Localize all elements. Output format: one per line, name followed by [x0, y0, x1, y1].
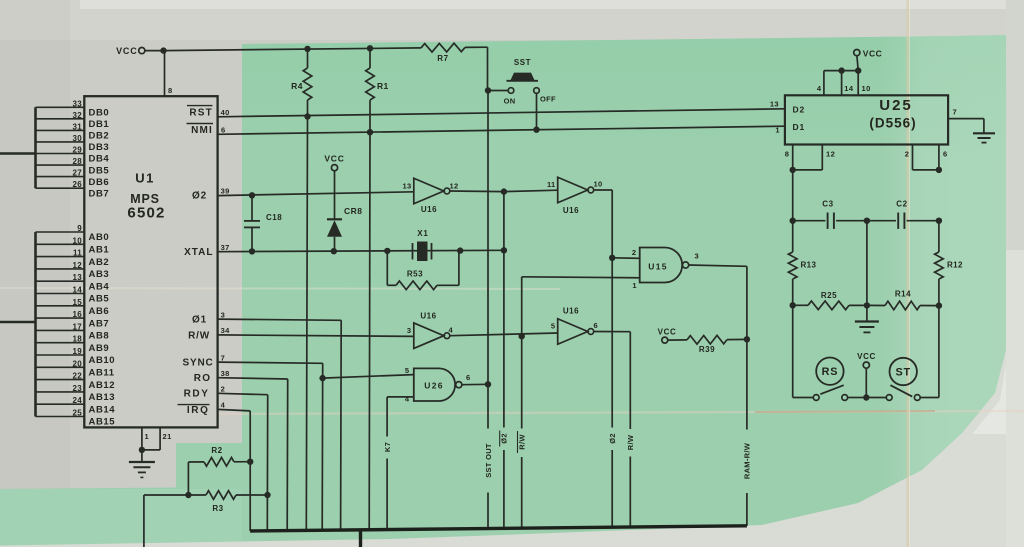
- wire VCC rail right segment: [465, 46, 488, 48]
- wire SST OUT vertical: [484, 91, 493, 529]
- svg-text:C18: C18: [266, 213, 282, 222]
- svg-text:D2: D2: [793, 105, 805, 115]
- svg-text:AB7: AB7: [89, 318, 110, 329]
- ground (U25 pin7): [973, 133, 995, 142]
- svg-text:Ø1: Ø1: [192, 314, 207, 325]
- wire DB0-DB7 pin lines: [36, 107, 85, 188]
- wire RO row (U1 pin38): [218, 378, 288, 531]
- junction XTAL/Ø2bar: [501, 247, 507, 253]
- svg-text:AB4: AB4: [89, 281, 110, 292]
- svg-text:AB12: AB12: [89, 380, 116, 391]
- svg-text:6: 6: [594, 321, 599, 330]
- wire RST net down to bus: [306, 117, 307, 531]
- wire U26 pin4 / K7: [383, 397, 414, 530]
- bus AB vertical bar: [34, 232, 37, 417]
- svg-text:VCC: VCC: [116, 46, 137, 56]
- svg-text:D1: D1: [793, 122, 805, 132]
- wire U25 pins 2/6 tie: [905, 145, 948, 174]
- svg-text:U16: U16: [420, 312, 436, 321]
- junction Ø2/U15 pin2: [609, 255, 615, 261]
- svg-text:Ø2: Ø2: [608, 433, 617, 444]
- svg-text:RO: RO: [194, 373, 212, 384]
- svg-text:AB9: AB9: [89, 343, 110, 354]
- junction XTAL/CR8: [331, 248, 337, 254]
- svg-text:13: 13: [770, 99, 779, 108]
- wire inv12 out to junction: [450, 190, 504, 193]
- svg-text:6502: 6502: [127, 205, 165, 222]
- wire right node down to ST: [920, 306, 939, 398]
- capacitor C3: [793, 200, 867, 229]
- wire U25 top pins to VCC: [817, 67, 871, 95]
- wire Ø2 row (U1 pin39 to U16 in13): [218, 192, 414, 196]
- contact OFF: [534, 88, 556, 104]
- wire U1 pin 8 from VCC: [165, 51, 173, 97]
- svg-text:X1: X1: [417, 229, 428, 238]
- svg-text:R/W: R/W: [626, 434, 635, 450]
- ground (U1): [129, 450, 155, 478]
- nand U26: [405, 366, 471, 404]
- node VCC (switch center): [857, 352, 876, 401]
- svg-text:Ø2: Ø2: [500, 433, 509, 444]
- wire U25 pin7 to ground: [948, 108, 984, 134]
- IC U1 MPS 6502 body: [84, 96, 217, 427]
- svg-text:10: 10: [594, 180, 603, 189]
- svg-text:R2: R2: [211, 446, 222, 455]
- bus drop thick wire: [359, 530, 362, 547]
- wire R/W vertical to bus: [626, 434, 635, 527]
- wire RAM-R/W vertical: [743, 339, 752, 526]
- svg-text:DB1: DB1: [89, 119, 110, 130]
- wire R/W row (U1 pin34): [218, 335, 414, 337]
- junction SST-OUT tee: [485, 87, 491, 93]
- wire VCC node to ST: [869, 397, 886, 399]
- resistor R39: [668, 335, 747, 354]
- wire Ø2bar vertical: [500, 192, 509, 529]
- svg-text:22: 22: [73, 372, 83, 381]
- svg-text:R53: R53: [407, 270, 423, 279]
- svg-text:12: 12: [826, 149, 835, 158]
- capacitor C18: [244, 195, 282, 251]
- svg-text:6: 6: [943, 149, 948, 158]
- svg-text:1: 1: [775, 126, 780, 135]
- svg-text:21: 21: [163, 432, 172, 441]
- wire U15 pin1 from R/Wbar: [522, 277, 640, 336]
- svg-text:AB0: AB0: [89, 232, 110, 243]
- wire NMI net down to bus: [368, 132, 371, 530]
- resistor R3: [188, 491, 267, 513]
- svg-text:1: 1: [145, 432, 150, 441]
- inverter U16 pins 5-6: [551, 307, 598, 345]
- node VCC (top-left): [116, 46, 145, 56]
- svg-text:27: 27: [73, 169, 83, 178]
- wire NMI row (U1 pin6 to U25 D1): [218, 126, 785, 134]
- svg-text:DB2: DB2: [89, 131, 110, 142]
- junction NMI/OFF: [533, 127, 539, 133]
- svg-text:Ø2: Ø2: [192, 191, 207, 202]
- svg-text:DB7: DB7: [89, 188, 110, 199]
- svg-text:U16: U16: [563, 206, 579, 215]
- wire U26 pin5 stub: [323, 375, 414, 379]
- svg-text:SST OUT: SST OUT: [484, 443, 493, 478]
- wire OFF contact to NMI: [536, 93, 538, 129]
- svg-text:K7: K7: [383, 442, 392, 452]
- wire rail corner down to SST: [487, 47, 489, 90]
- svg-text:R/W: R/W: [517, 434, 526, 450]
- junction C2 right: [936, 218, 942, 224]
- junction on VCC rail at pin8 drop: [160, 47, 166, 53]
- junction SST OUT / U26 out: [485, 381, 491, 387]
- junction VCC rail / R4: [304, 46, 310, 52]
- svg-text:RDY: RDY: [184, 389, 210, 400]
- wire U15 pin2 stub: [612, 257, 640, 260]
- inverter U16 pins 11-10: [547, 177, 602, 215]
- svg-text:AB3: AB3: [89, 269, 110, 280]
- resistor R12: [935, 221, 963, 306]
- wire inv4 out: [450, 333, 558, 336]
- svg-text:11: 11: [73, 249, 82, 258]
- svg-text:6: 6: [221, 126, 226, 135]
- svg-text:33: 33: [73, 99, 83, 108]
- junction RST/R4: [304, 113, 310, 119]
- junction R25/R14 center: [864, 302, 870, 308]
- wire RST row (U1 pin40 to U25 D2): [218, 109, 785, 117]
- wire VCC to junction: [145, 50, 164, 52]
- nand U15: [632, 248, 699, 291]
- switch ST: [886, 358, 920, 401]
- svg-text:R13: R13: [801, 261, 817, 270]
- junction NMI/R1: [367, 129, 373, 135]
- junction RDY/R3: [264, 492, 270, 498]
- svg-text:10: 10: [862, 84, 871, 93]
- svg-text:AB2: AB2: [89, 257, 110, 268]
- svg-text:37: 37: [221, 243, 230, 252]
- junction XTAL/X1 right: [457, 247, 463, 253]
- wire RS to VCC node: [848, 397, 864, 399]
- svg-text:R25: R25: [821, 291, 837, 300]
- svg-text:SST: SST: [514, 58, 531, 67]
- svg-text:AB10: AB10: [89, 355, 116, 366]
- svg-text:26: 26: [73, 180, 83, 189]
- svg-text:U26: U26: [424, 381, 444, 391]
- svg-text:30: 30: [73, 134, 83, 143]
- svg-text:VCC: VCC: [324, 154, 344, 164]
- svg-text:29: 29: [73, 146, 83, 155]
- svg-text:10: 10: [73, 236, 83, 245]
- wire R/Wbar vertical to bus: [517, 336, 526, 528]
- resistor R2: [188, 446, 250, 466]
- wire left node vertical (pin8 to C3): [792, 170, 794, 221]
- svg-text:5: 5: [551, 322, 556, 331]
- svg-text:DB4: DB4: [89, 154, 110, 165]
- wire U25 pins 8/12 tie: [785, 145, 835, 174]
- capacitor C2: [867, 200, 939, 229]
- svg-text:18: 18: [73, 335, 83, 344]
- wire AB0-AB15 pin lines: [36, 232, 85, 417]
- svg-text:38: 38: [221, 369, 230, 378]
- wire U15 out to RAM-R/W corner: [689, 265, 747, 339]
- svg-text:R4: R4: [291, 81, 303, 91]
- svg-text:RST: RST: [189, 107, 213, 118]
- svg-text:12: 12: [73, 261, 83, 270]
- svg-text:C3: C3: [822, 200, 833, 209]
- svg-text:AB8: AB8: [89, 331, 110, 342]
- labels AB pins: [73, 224, 116, 428]
- svg-text:AB6: AB6: [89, 306, 110, 317]
- svg-text:U15: U15: [648, 262, 668, 272]
- svg-text:OFF: OFF: [540, 95, 556, 104]
- svg-text:NMI: NMI: [191, 125, 213, 136]
- svg-text:17: 17: [73, 322, 83, 331]
- svg-text:2: 2: [905, 149, 910, 158]
- svg-text:15: 15: [73, 298, 83, 307]
- wire center node vertical: [866, 221, 868, 306]
- svg-text:R14: R14: [895, 290, 911, 299]
- svg-text:7: 7: [953, 108, 958, 117]
- svg-text:SYNC: SYNC: [183, 357, 214, 368]
- junction C3/C2 center: [864, 218, 870, 224]
- svg-text:DB0: DB0: [89, 108, 110, 119]
- wire SYNC row (U1 pin7): [218, 362, 323, 530]
- junction C3 left: [790, 218, 796, 224]
- wire inv6 out corner: [594, 332, 631, 430]
- svg-text:3: 3: [407, 326, 412, 335]
- junction XTAL/X1 left: [384, 248, 390, 254]
- svg-text:4: 4: [405, 395, 410, 404]
- svg-text:11: 11: [547, 180, 556, 189]
- svg-text:5: 5: [405, 366, 410, 375]
- resistor R13: [788, 221, 816, 306]
- inverter U16 pins 3-4: [407, 312, 454, 349]
- wire RDY row (U1 pin2): [218, 393, 268, 531]
- junction Ø2bar top: [501, 188, 507, 194]
- svg-text:39: 39: [221, 187, 230, 196]
- svg-text:VCC: VCC: [658, 328, 677, 337]
- svg-text:4: 4: [817, 84, 822, 93]
- svg-text:23: 23: [73, 384, 83, 393]
- svg-text:R/W: R/W: [188, 330, 210, 341]
- inverter U16 pins 13-12: [403, 178, 459, 214]
- svg-text:8: 8: [168, 86, 173, 95]
- svg-text:AB1: AB1: [89, 245, 110, 256]
- svg-text:R1: R1: [377, 81, 389, 91]
- svg-text:3: 3: [695, 252, 700, 261]
- junction SYNC/U26 pin5: [319, 375, 325, 381]
- svg-text:RAM-R/W: RAM-R/W: [743, 442, 752, 479]
- svg-text:14: 14: [844, 84, 854, 93]
- switch SST: [507, 58, 539, 81]
- svg-text:AB5: AB5: [89, 294, 110, 305]
- labels U25 left pin numbers: [770, 99, 780, 134]
- svg-text:RS: RS: [822, 366, 839, 378]
- svg-text:U25: U25: [879, 97, 913, 114]
- bus bottom thick wire: [250, 526, 747, 531]
- wire R3 node to bottom edge: [144, 495, 189, 547]
- svg-text:AB15: AB15: [89, 417, 116, 428]
- junction R14 right: [936, 302, 942, 308]
- svg-text:AB13: AB13: [89, 392, 116, 403]
- svg-text:U16: U16: [421, 205, 437, 214]
- wire DB bus stub to left edge: [0, 152, 36, 154]
- svg-text:2: 2: [632, 248, 637, 257]
- svg-text:ON: ON: [504, 97, 516, 106]
- svg-text:R39: R39: [699, 345, 715, 354]
- svg-text:ST: ST: [895, 367, 910, 379]
- resistor R1: [366, 48, 389, 132]
- svg-text:AB11: AB11: [89, 368, 115, 379]
- svg-text:U16: U16: [563, 307, 579, 316]
- resistor R7: [421, 43, 465, 63]
- bus DB vertical bar: [34, 107, 37, 188]
- wire U1 pin1/pin21 to ground: [139, 427, 172, 453]
- wire inv10 out corner: [594, 190, 613, 258]
- svg-text:R3: R3: [212, 504, 223, 513]
- svg-text:U1: U1: [135, 171, 155, 186]
- svg-text:VCC: VCC: [857, 352, 876, 361]
- svg-text:14: 14: [73, 286, 83, 295]
- wire R2 left corner down: [187, 462, 189, 495]
- diode CR8: [327, 171, 363, 251]
- svg-text:3: 3: [221, 310, 226, 319]
- svg-text:13: 13: [403, 182, 412, 191]
- junction R2/R3 node: [185, 492, 191, 498]
- resistor R14: [867, 290, 939, 310]
- labels U1 right pin numbers: [221, 108, 231, 410]
- svg-text:19: 19: [73, 347, 83, 356]
- junction VCC rail / R1: [367, 45, 373, 51]
- svg-text:34: 34: [221, 326, 231, 335]
- svg-text:4: 4: [449, 326, 454, 335]
- wire Ø2bar to inv11 in: [504, 190, 558, 191]
- wire Ø1 row (U1 pin3): [218, 319, 342, 530]
- svg-text:AB14: AB14: [89, 404, 116, 415]
- wire to SST ON contact: [488, 90, 508, 92]
- svg-text:4: 4: [221, 401, 226, 410]
- svg-text:1: 1: [632, 281, 637, 290]
- junction R/Wbar: [519, 333, 525, 339]
- wire Ø2 vertical to bus: [608, 258, 617, 527]
- labels DB pins: [73, 99, 110, 199]
- svg-text:DB5: DB5: [89, 165, 110, 176]
- node VCC (R39): [658, 328, 677, 344]
- svg-text:20: 20: [73, 359, 83, 368]
- svg-text:25: 25: [73, 409, 83, 418]
- wire left node down to RS: [793, 305, 814, 397]
- svg-text:6: 6: [466, 373, 471, 382]
- wire U26 out to SST OUT: [462, 383, 488, 385]
- svg-text:8: 8: [785, 149, 790, 158]
- switch RS: [813, 358, 847, 401]
- ground (center): [855, 305, 879, 332]
- junction R25 left: [790, 302, 796, 308]
- wire AB bus stub to left edge: [0, 321, 36, 323]
- svg-text:32: 32: [73, 111, 83, 120]
- crystal X1: [413, 229, 432, 261]
- svg-text:DB3: DB3: [89, 142, 110, 153]
- svg-text:C2: C2: [896, 200, 907, 209]
- svg-text:28: 28: [73, 157, 83, 166]
- svg-text:R7: R7: [437, 54, 448, 63]
- svg-text:7: 7: [221, 353, 226, 362]
- resistor R4: [291, 49, 312, 117]
- svg-text:R12: R12: [947, 261, 963, 270]
- svg-text:13: 13: [73, 273, 83, 282]
- svg-text:24: 24: [73, 396, 83, 405]
- contact ON: [504, 88, 516, 106]
- node VCC (U25): [854, 49, 883, 71]
- svg-text:DB6: DB6: [89, 177, 110, 188]
- junction Ø2/C18: [249, 192, 255, 198]
- svg-text:9: 9: [77, 224, 82, 233]
- wire IRQ row (U1 pin4): [218, 409, 251, 531]
- junction XTAL/C18: [249, 248, 255, 254]
- labels U1 right-side pins: [178, 106, 214, 416]
- node VCC (CR8): [324, 154, 344, 171]
- junction IRQ/R2: [247, 459, 253, 465]
- svg-text:16: 16: [73, 310, 83, 319]
- wire VCC rail left segment: [164, 48, 422, 51]
- svg-text:IRQ: IRQ: [187, 405, 210, 416]
- svg-text:31: 31: [73, 122, 83, 131]
- wire XTAL row: [218, 250, 504, 251]
- svg-text:VCC: VCC: [863, 49, 882, 59]
- junction RAM-R/W / R39: [744, 336, 750, 342]
- IC U25 (D556) body: [785, 95, 948, 144]
- svg-text:CR8: CR8: [344, 206, 363, 216]
- resistor R53: [387, 251, 459, 290]
- svg-text:40: 40: [221, 108, 230, 117]
- svg-text:(D556): (D556): [869, 116, 916, 131]
- svg-text:12: 12: [450, 182, 459, 191]
- resistor R25: [793, 291, 867, 310]
- svg-text:2: 2: [221, 385, 226, 394]
- svg-text:XTAL: XTAL: [184, 247, 213, 258]
